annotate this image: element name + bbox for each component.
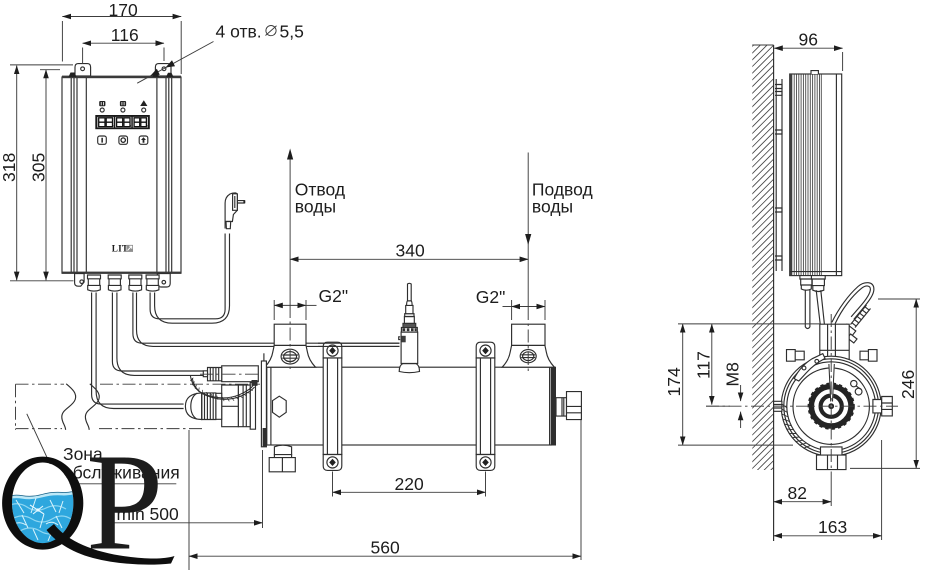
svg-text:воды: воды (295, 197, 336, 217)
svg-text:воды: воды (532, 197, 573, 217)
cable 3 to uv sensor (133, 293, 400, 344)
drain fitting (274, 445, 291, 454)
cable 2 to lamp connector (112, 293, 203, 372)
extension lines 318/305 (10, 65, 74, 281)
button O (119, 136, 128, 144)
wall hatching (740, 10, 782, 534)
panel bottom mounting tab right (157, 274, 170, 288)
cable gland 3 (129, 275, 142, 291)
dimension 246 (915, 299, 917, 468)
control panel body outline (62, 77, 181, 273)
power plug (225, 193, 237, 229)
sensor cable hanging (805, 290, 810, 329)
svg-text:246: 246 (898, 370, 918, 399)
wall stud M8 (774, 401, 782, 411)
svg-text:G2": G2" (476, 287, 506, 307)
chamber right end cap (551, 367, 556, 446)
zone break squiggle 2 (85, 384, 99, 430)
cable gland 4 (146, 275, 159, 291)
panel bottom plate (790, 271, 842, 273)
panel side fins (794, 75, 821, 276)
uv sensor (399, 283, 420, 372)
dimension 220 (333, 491, 486, 493)
right stub nut side (873, 400, 882, 413)
service zone bottom boundary (16, 428, 206, 430)
wall edge line (773, 45, 775, 541)
dimension 340 (290, 258, 528, 260)
side view centerlines (706, 405, 898, 407)
control panel mounting tab top-left (75, 64, 91, 76)
svg-text:5,5: 5,5 (280, 22, 304, 42)
saddle screw left (281, 349, 299, 364)
dark wedge tab bases (69, 73, 77, 78)
conduit end fitting (842, 324, 855, 337)
indicator icon 3 (warning triangle) (140, 100, 147, 106)
mounting clamp 2 (476, 342, 495, 470)
panel top thick edge (62, 76, 181, 79)
control panel mounting tab top-right (155, 64, 171, 76)
panel side body (790, 74, 842, 276)
cable gland 1 (88, 275, 101, 291)
gland scalloped nut (811, 386, 851, 426)
LED indicators (100, 108, 104, 112)
svg-text:340: 340 (396, 241, 425, 261)
stub centerlines (290, 305, 528, 371)
dimension 305 (45, 70, 47, 281)
dimension G2 right (512, 306, 545, 308)
svg-text:163: 163 (818, 517, 847, 537)
box nut left (787, 350, 805, 362)
saddle screw right (520, 350, 536, 363)
connector loop wire (190, 375, 253, 398)
svg-text:M8: M8 (723, 362, 743, 386)
chamber left weld seam (270, 367, 272, 445)
dimension G2 left (274, 304, 306, 306)
panel top bump (811, 71, 818, 74)
svg-text:174: 174 (664, 367, 684, 396)
zone break squiggle 1 (62, 384, 76, 430)
chamber circle rings (781, 356, 881, 456)
side gland left (sensor cable) (800, 276, 813, 291)
svg-text:116: 116 (111, 25, 139, 45)
lamp end flange plate (261, 361, 266, 447)
dimension 117 (711, 324, 713, 405)
flow arrow in (527, 153, 529, 308)
dimension 174 (682, 324, 684, 445)
conduit bands (852, 307, 870, 327)
clamp hinge plate (794, 354, 825, 381)
plug pin (237, 201, 245, 203)
lamp connector top (200, 366, 262, 382)
service zone top boundary (16, 383, 261, 385)
service zone left boundary (15, 384, 17, 430)
conduit ribbed section (851, 305, 871, 328)
svg-text:117: 117 (694, 351, 714, 379)
svg-text:82: 82 (788, 483, 807, 503)
svg-text:LIT: LIT (112, 244, 128, 254)
svg-text:P: P (86, 426, 163, 570)
cable gland 2 (108, 275, 121, 291)
flexible conduit loop (832, 283, 874, 323)
outlet stub G2 right (502, 324, 554, 367)
lamp gland stack (185, 383, 255, 430)
right outlet fitting (556, 398, 567, 416)
connector sensor block (252, 380, 258, 386)
lamp cable into gland (828, 364, 835, 402)
chamber body (267, 367, 552, 445)
button up-arrow (139, 136, 148, 144)
clamp band hatch sector (781, 404, 810, 449)
svg-text:318: 318 (0, 153, 19, 182)
lamp connector box side (820, 324, 849, 364)
extension lines 174/117 (678, 324, 820, 445)
dimension 318 (16, 66, 18, 281)
dimension 116 (83, 42, 164, 44)
dimension 560 (189, 555, 581, 557)
svg-text:96: 96 (799, 30, 818, 50)
svg-text:G2": G2" (319, 286, 349, 306)
dimension min 500 (112, 522, 263, 524)
dimension 96 (774, 47, 842, 49)
flow arrow out (289, 152, 291, 305)
button I (98, 136, 107, 144)
svg-text:170: 170 (109, 0, 138, 20)
Q ring (2, 457, 83, 550)
svg-text:220: 220 (395, 474, 424, 494)
plug strain relief (226, 222, 231, 229)
dimension 82 (774, 501, 832, 503)
svg-text:560: 560 (371, 538, 400, 558)
side gland right (lamp cable) (811, 276, 825, 292)
svg-text:305: 305 (29, 153, 49, 182)
cable 4 to power plug (150, 234, 225, 319)
mounting clamp 1 (323, 342, 342, 470)
panel side fin lines left (71, 78, 86, 273)
panel bottom mounting tab left (75, 274, 85, 287)
svg-text:4 отв.: 4 отв. (216, 22, 262, 42)
indicator icon 2 (lamp) (120, 101, 126, 106)
clamp latch screws (851, 380, 857, 386)
cable 1 to lamp gland (92, 293, 184, 405)
digital display frame (95, 115, 150, 129)
display digit cells (97, 117, 113, 128)
drain side (821, 447, 843, 455)
panel side mounting rail (776, 79, 782, 271)
cable 3 over clamp1 lug (318, 343, 400, 346)
Q tail swoosh (47, 524, 175, 565)
lamp cable to chamber (816, 290, 832, 402)
dimension 170 (62, 16, 181, 18)
inlet stub G2 left (265, 324, 316, 367)
panel side fin lines right (157, 78, 172, 273)
indicator icon 1 (lamp) (99, 101, 105, 106)
hex plug (273, 396, 287, 417)
dimension 163 (774, 535, 882, 537)
leader line to tab hole (137, 42, 213, 84)
box nut right (860, 350, 877, 362)
